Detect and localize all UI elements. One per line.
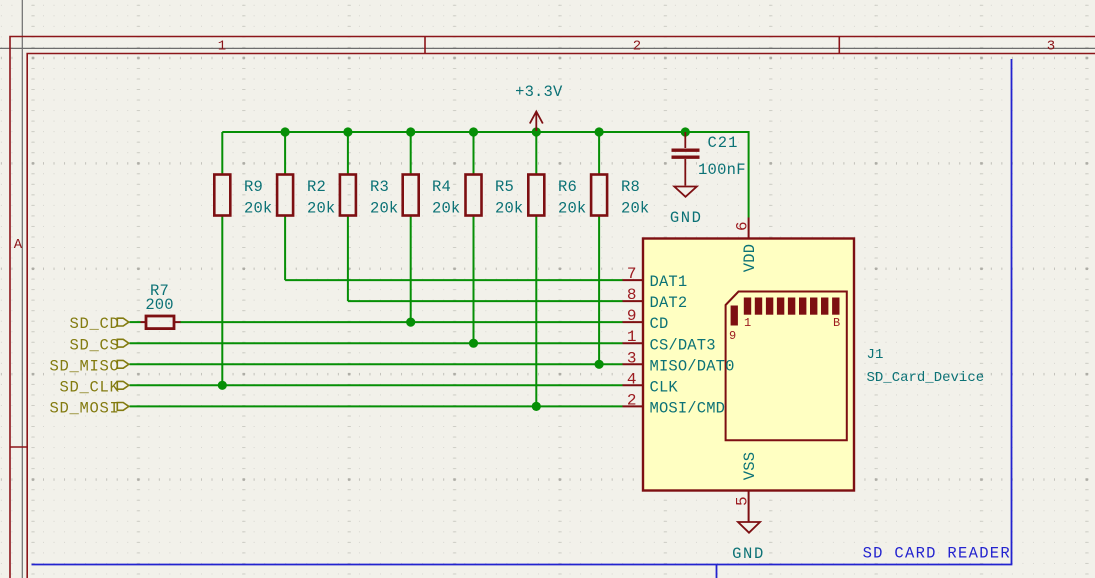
svg-text:1: 1 [627, 328, 637, 346]
svg-text:R4: R4 [432, 178, 451, 196]
svg-text:J1: J1 [867, 347, 884, 363]
svg-text:1: 1 [744, 316, 751, 330]
svg-text:CS/DAT3: CS/DAT3 [650, 336, 716, 354]
svg-text:8: 8 [627, 286, 637, 304]
svg-text:SD_CS: SD_CS [69, 336, 119, 354]
svg-text:R3: R3 [370, 178, 389, 196]
svg-text:4: 4 [627, 370, 637, 388]
svg-text:C21: C21 [708, 134, 739, 152]
svg-text:5: 5 [733, 496, 751, 506]
svg-text:2: 2 [627, 391, 637, 409]
svg-text:R2: R2 [307, 178, 326, 196]
svg-text:R9: R9 [244, 178, 263, 196]
svg-text:DAT2: DAT2 [650, 294, 688, 312]
svg-text:9: 9 [729, 329, 736, 343]
svg-text:GND: GND [732, 545, 765, 563]
svg-text:20k: 20k [307, 200, 335, 218]
svg-text:2: 2 [633, 39, 641, 55]
svg-text:VDD: VDD [741, 244, 759, 272]
svg-text:SD CARD READER: SD CARD READER [863, 545, 1011, 563]
svg-text:20k: 20k [244, 200, 272, 218]
svg-text:9: 9 [627, 307, 637, 325]
svg-text:3: 3 [1047, 39, 1055, 55]
svg-text:MOSI/CMD: MOSI/CMD [650, 400, 726, 418]
svg-text:A: A [14, 237, 23, 253]
svg-text:R5: R5 [495, 178, 514, 196]
svg-text:20k: 20k [558, 200, 586, 218]
svg-text:R6: R6 [558, 178, 577, 196]
svg-text:20k: 20k [621, 200, 649, 218]
svg-text:20k: 20k [432, 200, 460, 218]
svg-text:SD_Card_Device: SD_Card_Device [867, 370, 985, 386]
svg-text:3: 3 [627, 349, 637, 367]
svg-text:7: 7 [627, 265, 637, 283]
svg-text:SD_MOSI: SD_MOSI [49, 400, 119, 418]
svg-text:1: 1 [218, 39, 226, 55]
svg-text:+3.3V: +3.3V [515, 83, 563, 101]
svg-text:CLK: CLK [650, 378, 679, 396]
svg-text:200: 200 [145, 296, 173, 314]
svg-text:CD: CD [650, 315, 669, 333]
svg-text:GND: GND [670, 209, 703, 227]
svg-text:20k: 20k [495, 200, 523, 218]
svg-text:VSS: VSS [741, 452, 759, 480]
svg-text:100nF: 100nF [698, 161, 746, 179]
svg-text:MISO/DAT0: MISO/DAT0 [650, 357, 735, 375]
svg-text:SD_MISO: SD_MISO [49, 357, 119, 375]
svg-text:B: B [833, 316, 840, 330]
svg-text:20k: 20k [370, 200, 398, 218]
svg-text:DAT1: DAT1 [650, 273, 688, 291]
svg-text:SD_CD: SD_CD [69, 315, 119, 333]
svg-text:R8: R8 [621, 178, 640, 196]
svg-text:6: 6 [733, 221, 751, 231]
svg-text:SD_CLK: SD_CLK [59, 378, 119, 396]
